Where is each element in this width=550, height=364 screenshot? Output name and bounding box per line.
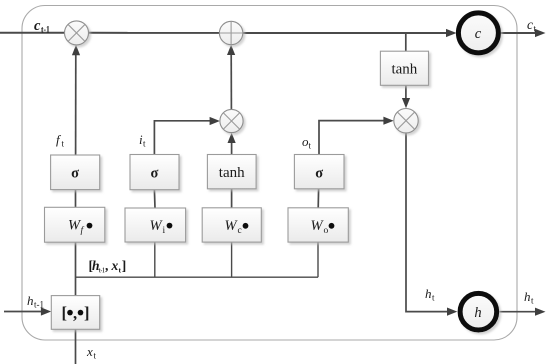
wire c output line with arrowhead (501, 32, 537, 34)
weight box Wi (125, 208, 186, 242)
svg-text:o: o (324, 226, 329, 236)
label h_t left of node h (425, 286, 435, 303)
plus node cell state (219, 21, 242, 44)
wire tanh to multiply node with arrowhead (405, 85, 407, 99)
svg-text:h: h (27, 293, 34, 308)
svg-text:c: c (238, 226, 242, 236)
svg-text:σ: σ (315, 165, 323, 181)
label h_{t-1} (27, 293, 44, 310)
svg-text:i: i (163, 226, 166, 236)
multiply node forget gate (65, 21, 89, 45)
label h_t right of node h (524, 289, 534, 306)
label c_{t-1} (34, 18, 50, 35)
label x_t (86, 344, 97, 361)
wire Wf down through concat junction to concat box (75, 242, 77, 295)
svg-text:[: [ (62, 303, 68, 322)
wire tanh c to Wc connector (231, 189, 233, 208)
svg-text:]: ] (122, 258, 127, 273)
svg-text:,: , (105, 258, 108, 273)
tanh box output path (380, 51, 428, 85)
label c_t (527, 17, 537, 34)
wire c-state line left segment (0, 32, 65, 34)
wire concat distribution horizontal line (76, 276, 319, 278)
wire input gate sigma up and right into multiply with arrowhead (154, 121, 211, 155)
wire Wi down to distribution line (154, 242, 156, 277)
svg-text:c: c (527, 17, 533, 32)
label f_t (56, 132, 65, 149)
wire multiply up into plus node with arrowhead (230, 54, 232, 109)
svg-text:h: h (524, 289, 531, 304)
wire Wc down to distribution line (231, 242, 233, 277)
wire sigma o to Wo connector (317, 189, 319, 208)
svg-text:c: c (475, 26, 482, 42)
wire branch from c-line down to tanh box (405, 33, 407, 51)
svg-text:tanh: tanh (219, 165, 245, 181)
multiply node output gate (394, 109, 418, 133)
svg-text:]: ] (84, 303, 90, 322)
weight box Wc (202, 208, 261, 242)
wire x_t input from bottom into concat box (75, 329, 77, 364)
svg-text:c: c (34, 18, 41, 34)
svg-text:t-1: t-1 (99, 266, 105, 275)
wire h output line with arrowhead (500, 311, 537, 313)
node c cell state (458, 13, 498, 53)
svg-text:σ: σ (151, 165, 159, 181)
svg-text:,: , (73, 303, 77, 322)
svg-text:h: h (474, 305, 481, 321)
wire sigma i to Wi connector (153, 190, 156, 208)
concat box [.,.] (51, 296, 99, 330)
weight box Wf (45, 207, 105, 242)
wire c-state line middle segment (89, 32, 220, 34)
wire sigma f to Wf connector (75, 190, 77, 208)
svg-text:W: W (225, 218, 239, 234)
svg-text:t-1: t-1 (41, 24, 50, 34)
wire forget gate sigma up to multiply with arrowhead (75, 55, 77, 156)
label [h_{t-1}, x_t] (89, 258, 127, 275)
svg-text:h: h (425, 286, 432, 301)
svg-text:W: W (311, 218, 325, 234)
sigma box forget gate (51, 155, 100, 190)
sigma box input gate (130, 155, 179, 190)
tanh box candidate (207, 155, 256, 189)
label i_t (139, 132, 146, 149)
svg-text:x: x (111, 258, 119, 273)
wire c-state line into node c with arrowhead (243, 32, 448, 34)
wire multiply down then right into node h with arrowhead (406, 133, 448, 312)
svg-text:W: W (150, 218, 164, 234)
node h hidden state (460, 293, 497, 330)
multiply node input gate (220, 109, 243, 132)
label o_t (302, 134, 312, 151)
wire h_{t-1} input into concat box with arrowhead (4, 311, 42, 313)
wire output gate sigma up and right into multiply with arrowhead (319, 121, 385, 155)
sigma box output gate (294, 155, 344, 189)
wire Wo down to distribution line (317, 242, 319, 277)
wire candidate tanh up into multiply with arrowhead (231, 142, 233, 155)
svg-text:σ: σ (71, 166, 79, 182)
svg-text:t-1: t-1 (34, 300, 44, 310)
svg-text:x: x (86, 344, 93, 359)
svg-text:tanh: tanh (391, 62, 417, 78)
weight box Wo (288, 208, 348, 242)
